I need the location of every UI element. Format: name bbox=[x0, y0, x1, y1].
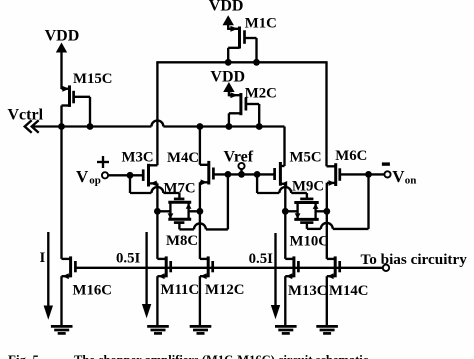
wire Vctrl rail bbox=[33, 121, 285, 130]
svg-text:on: on bbox=[405, 175, 417, 187]
transistor M11C bbox=[157, 211, 199, 325]
transistor M13C bbox=[285, 211, 327, 325]
Vref label and terminal bbox=[224, 148, 254, 174]
svg-text:M4C: M4C bbox=[167, 150, 199, 166]
rail node M1C (VDD-Vgs rail) bbox=[156, 59, 327, 66]
wire Vref to M9C gate bbox=[257, 174, 307, 199]
caption (clipped at bottom edge) bbox=[8, 352, 371, 359]
svg-text:M11C: M11C bbox=[161, 282, 200, 298]
output Von terminal bbox=[382, 162, 417, 186]
wire Von to M10C gate bbox=[307, 174, 369, 229]
svg-text:V: V bbox=[76, 167, 89, 186]
transistor M8C bbox=[166, 213, 198, 249]
node stubs M7C/M8C bbox=[154, 208, 203, 215]
svg-text:M6C: M6C bbox=[335, 148, 367, 164]
svg-text:M3C: M3C bbox=[122, 149, 154, 165]
transistor M16C bbox=[62, 127, 112, 326]
Vctrl double arrow bbox=[25, 120, 39, 132]
svg-text:M10C: M10C bbox=[290, 234, 329, 250]
svg-text:M13C: M13C bbox=[288, 283, 327, 299]
transistor M3C bbox=[122, 62, 158, 211]
ground under M11C bbox=[147, 326, 169, 333]
svg-text:Fig. 5.: Fig. 5. bbox=[8, 352, 42, 359]
svg-text:M12C: M12C bbox=[205, 282, 244, 298]
transistor M5C bbox=[275, 127, 322, 212]
current arrow 0.5I left bbox=[116, 232, 151, 318]
svg-text:The chopper amplifiers (M1C-M1: The chopper amplifiers (M1C-M16C) circui… bbox=[74, 353, 371, 359]
wire M6C gate to Von bbox=[340, 171, 385, 178]
ground under M16C bbox=[51, 326, 73, 333]
svg-text:M5C: M5C bbox=[290, 150, 322, 166]
svg-text:M15C: M15C bbox=[73, 71, 112, 87]
svg-text:M16C: M16C bbox=[73, 283, 112, 299]
svg-text:M14C: M14C bbox=[329, 283, 368, 299]
transistor M14C bbox=[327, 211, 369, 325]
transistor M10C bbox=[290, 213, 329, 249]
svg-text:0.5I: 0.5I bbox=[116, 251, 140, 267]
svg-text:0.5I: 0.5I bbox=[249, 251, 273, 267]
svg-text:M9C: M9C bbox=[292, 179, 324, 195]
svg-text:op: op bbox=[89, 175, 101, 187]
input Vop terminal bbox=[76, 156, 109, 187]
transistor M7C bbox=[164, 180, 196, 219]
svg-text:M7C: M7C bbox=[164, 180, 196, 196]
ground under M14C bbox=[316, 326, 338, 333]
wire M8C gate to Vref bbox=[179, 174, 228, 229]
svg-text:VDD: VDD bbox=[209, 0, 244, 15]
transistor M12C bbox=[200, 211, 245, 325]
wire Vop to M3C gate bbox=[108, 172, 142, 179]
transistor M9C bbox=[292, 179, 324, 220]
wire Vref line (M4C gate to M5C gate) bbox=[213, 171, 274, 178]
svg-text:I: I bbox=[40, 250, 46, 266]
current arrow I bbox=[40, 232, 54, 320]
VDD supply top bbox=[209, 0, 244, 30]
transistor M2C bbox=[229, 86, 277, 127]
ground under M13C bbox=[275, 326, 297, 333]
svg-text:M1C: M1C bbox=[245, 16, 277, 32]
transistor M4C bbox=[167, 127, 213, 212]
svg-text:To bias circuitry: To bias circuitry bbox=[361, 251, 468, 268]
svg-text:VDD: VDD bbox=[210, 69, 245, 86]
transistor M6C bbox=[327, 62, 368, 211]
VDD supply left bbox=[45, 28, 80, 89]
svg-text:M8C: M8C bbox=[166, 233, 198, 249]
wire bias gate rail bbox=[75, 265, 389, 271]
svg-text:Vref: Vref bbox=[224, 148, 254, 165]
ground under M12C bbox=[190, 326, 212, 333]
transistor M1C bbox=[228, 16, 277, 63]
svg-text:VDD: VDD bbox=[45, 28, 80, 45]
wire Vop to M7C gate bbox=[130, 175, 179, 199]
current arrow 0.5I right bbox=[249, 233, 281, 319]
VDD supply middle bbox=[210, 69, 245, 97]
transistor M15C bbox=[62, 71, 113, 127]
svg-text:V: V bbox=[392, 167, 405, 186]
svg-text:M2C: M2C bbox=[245, 86, 277, 102]
node stubs M9C/M10C bbox=[282, 208, 330, 215]
